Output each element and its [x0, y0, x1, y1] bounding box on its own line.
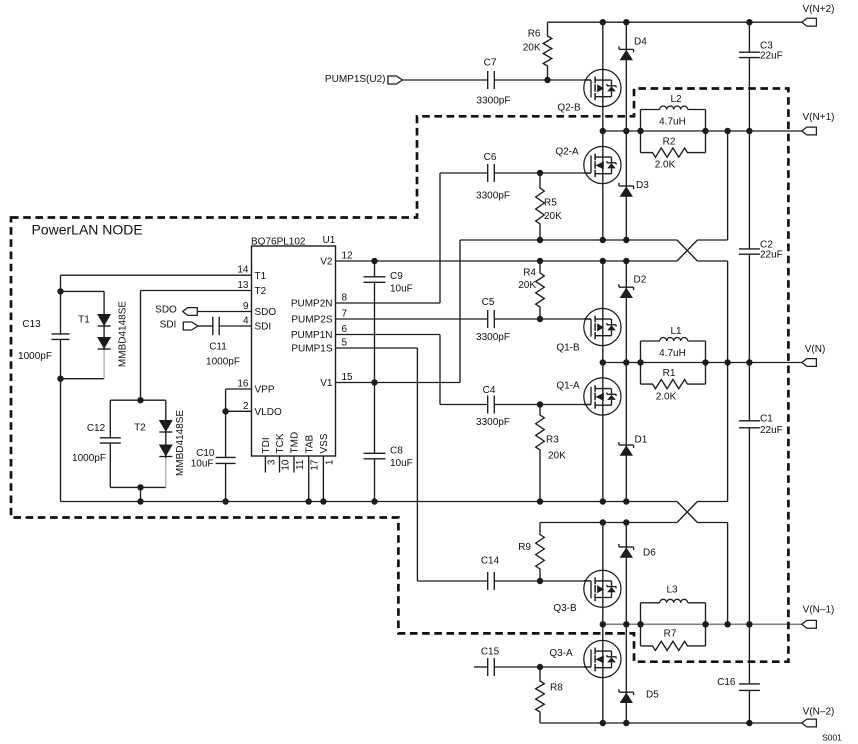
svg-text:2.0K: 2.0K — [655, 160, 676, 171]
svg-text:T2: T2 — [255, 286, 267, 297]
svg-text:C15: C15 — [481, 647, 500, 658]
svg-text:14: 14 — [237, 265, 249, 276]
svg-text:PUMP2S: PUMP2S — [291, 315, 332, 326]
svg-text:Q1-B: Q1-B — [556, 343, 580, 354]
svg-text:C11: C11 — [209, 342, 227, 353]
svg-text:20K: 20K — [544, 211, 562, 222]
svg-text:BQ76PL102: BQ76PL102 — [251, 237, 306, 248]
svg-text:10uF: 10uF — [191, 459, 214, 470]
svg-text:V(N–2): V(N–2) — [803, 707, 835, 718]
svg-text:C12: C12 — [87, 423, 106, 434]
svg-text:TDI: TDI — [261, 437, 272, 453]
svg-text:V(N–1): V(N–1) — [803, 605, 835, 616]
svg-text:C8: C8 — [390, 446, 403, 457]
svg-text:U1: U1 — [323, 235, 336, 246]
svg-text:C5: C5 — [482, 297, 495, 308]
svg-text:10uF: 10uF — [390, 458, 413, 469]
svg-text:C16: C16 — [717, 677, 736, 688]
svg-text:C4: C4 — [483, 385, 496, 396]
svg-text:R8: R8 — [550, 683, 563, 694]
svg-text:1000pF: 1000pF — [206, 357, 240, 368]
svg-text:S001: S001 — [822, 733, 842, 743]
svg-text:R9: R9 — [518, 542, 531, 553]
svg-text:1: 1 — [324, 459, 335, 465]
svg-text:V1: V1 — [320, 378, 333, 389]
svg-text:7: 7 — [342, 309, 348, 320]
svg-text:2.0K: 2.0K — [656, 392, 677, 403]
svg-text:R5: R5 — [544, 198, 557, 209]
svg-text:C7: C7 — [484, 58, 497, 69]
svg-text:D4: D4 — [634, 37, 647, 48]
svg-text:3: 3 — [266, 459, 277, 465]
svg-text:C6: C6 — [484, 152, 497, 163]
svg-text:PUMP1S(U2): PUMP1S(U2) — [325, 74, 386, 85]
svg-text:TMD: TMD — [290, 432, 301, 454]
svg-text:PowerLAN NODE: PowerLAN NODE — [32, 222, 143, 238]
svg-text:20K: 20K — [523, 43, 541, 54]
svg-text:D6: D6 — [643, 548, 656, 559]
svg-text:2: 2 — [243, 401, 249, 412]
svg-text:4: 4 — [243, 316, 249, 327]
svg-text:Q2-B: Q2-B — [557, 103, 581, 114]
svg-text:3300pF: 3300pF — [477, 96, 511, 107]
svg-text:10: 10 — [281, 459, 292, 471]
svg-text:17: 17 — [310, 459, 321, 471]
svg-text:T2: T2 — [134, 423, 146, 434]
svg-text:3300pF: 3300pF — [476, 191, 510, 202]
svg-text:R1: R1 — [663, 368, 676, 379]
svg-text:3300pF: 3300pF — [476, 417, 510, 428]
svg-text:L1: L1 — [670, 326, 682, 337]
svg-text:SDI: SDI — [255, 322, 272, 333]
svg-text:1000pF: 1000pF — [18, 351, 52, 362]
svg-text:VSS: VSS — [319, 433, 330, 453]
svg-text:VLDO: VLDO — [255, 407, 282, 418]
svg-text:Q3-A: Q3-A — [549, 648, 573, 659]
svg-text:SDI: SDI — [160, 320, 177, 331]
svg-text:L3: L3 — [666, 585, 678, 596]
svg-text:4.7uH: 4.7uH — [659, 117, 686, 128]
svg-text:PUMP2N: PUMP2N — [291, 299, 333, 310]
svg-text:R2: R2 — [663, 137, 676, 148]
svg-text:10uF: 10uF — [390, 284, 413, 295]
svg-text:C13: C13 — [22, 319, 41, 330]
svg-text:D5: D5 — [646, 690, 659, 701]
svg-text:TCK: TCK — [275, 433, 286, 453]
svg-text:5: 5 — [342, 338, 348, 349]
svg-text:22uF: 22uF — [760, 425, 783, 436]
svg-text:R6: R6 — [528, 29, 541, 40]
svg-text:D2: D2 — [634, 275, 647, 286]
svg-text:R7: R7 — [664, 629, 677, 640]
svg-text:V2: V2 — [320, 257, 333, 268]
svg-text:C9: C9 — [390, 271, 403, 282]
svg-text:L2: L2 — [670, 94, 682, 105]
svg-text:C10: C10 — [196, 448, 215, 459]
svg-text:16: 16 — [237, 379, 249, 390]
svg-text:D3: D3 — [636, 180, 649, 191]
svg-text:D1: D1 — [635, 435, 648, 446]
svg-text:Q2-A: Q2-A — [555, 147, 579, 158]
svg-text:V(N): V(N) — [805, 344, 826, 355]
svg-text:T1: T1 — [78, 315, 90, 326]
svg-text:MMBD4148SE: MMBD4148SE — [118, 301, 129, 367]
svg-text:V(N+1): V(N+1) — [803, 112, 835, 123]
svg-text:20K: 20K — [548, 451, 566, 462]
svg-text:20K: 20K — [518, 280, 536, 291]
svg-text:V(N+2): V(N+2) — [803, 4, 835, 15]
svg-text:PUMP1N: PUMP1N — [291, 330, 333, 341]
svg-text:MMBD4148SE: MMBD4148SE — [175, 410, 186, 476]
svg-text:9: 9 — [243, 301, 249, 312]
svg-text:22uF: 22uF — [760, 51, 783, 62]
svg-text:3300pF: 3300pF — [476, 332, 510, 343]
svg-text:C14: C14 — [481, 556, 500, 567]
svg-text:22uF: 22uF — [760, 250, 783, 261]
svg-text:Q1-A: Q1-A — [556, 381, 580, 392]
svg-text:12: 12 — [342, 251, 354, 262]
svg-text:R4: R4 — [523, 268, 536, 279]
svg-text:8: 8 — [342, 293, 348, 304]
svg-text:1000pF: 1000pF — [72, 453, 106, 464]
svg-text:TAB: TAB — [304, 434, 315, 453]
svg-text:SDO: SDO — [255, 307, 277, 318]
svg-text:VPP: VPP — [255, 385, 275, 396]
svg-text:15: 15 — [342, 372, 354, 383]
svg-text:4.7uH: 4.7uH — [659, 348, 686, 359]
svg-text:6: 6 — [342, 324, 348, 335]
svg-text:13: 13 — [237, 280, 249, 291]
svg-text:Q3-B: Q3-B — [553, 603, 577, 614]
svg-text:T1: T1 — [255, 271, 267, 282]
svg-text:R3: R3 — [546, 435, 559, 446]
svg-text:PUMP1S: PUMP1S — [291, 344, 332, 355]
svg-text:SDO: SDO — [155, 305, 177, 316]
svg-text:11: 11 — [295, 459, 306, 470]
svg-text:C1: C1 — [760, 414, 773, 425]
